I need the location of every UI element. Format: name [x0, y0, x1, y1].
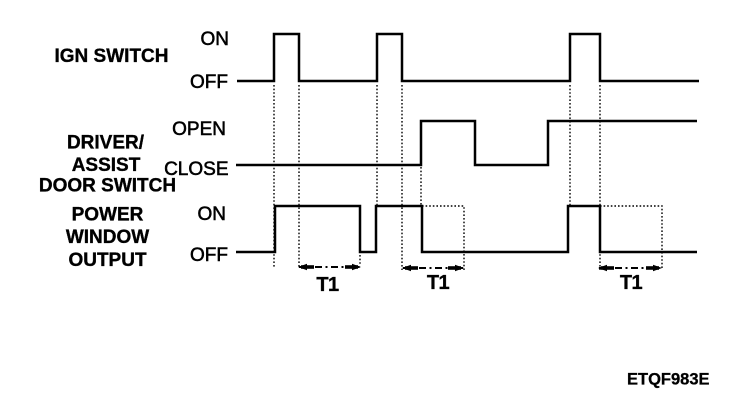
T1 arrow 2 [402, 265, 464, 271]
door switch waveform [236, 121, 697, 165]
svg-text:T1: T1 [620, 272, 643, 294]
svg-text:OFF: OFF [190, 245, 228, 266]
svg-text:OUTPUT: OUTPUT [68, 250, 147, 271]
dashed vertical at ign pulse1 fall x=299 [298, 85, 300, 268]
svg-text:POWER: POWER [72, 205, 144, 226]
dashed vertical at door open x=421 [420, 167, 422, 205]
dashed vertical at ign pulse1 rise x=274 [273, 85, 275, 268]
T1 arrow 3 [598, 265, 662, 271]
svg-text:CLOSE: CLOSE [164, 159, 228, 180]
dotted expected-output box after pulse2 [422, 206, 464, 270]
svg-text:OPEN: OPEN [172, 119, 226, 140]
svg-text:T1: T1 [427, 272, 450, 294]
dashed vertical at ign pulse2 rise x=377 [376, 85, 378, 206]
power window output waveform [236, 206, 697, 252]
svg-text:ASSIST: ASSIST [72, 155, 141, 176]
svg-text:ON: ON [201, 29, 230, 50]
svg-text:DRIVER/: DRIVER/ [67, 133, 145, 154]
svg-text:ETQF983E: ETQF983E [627, 371, 710, 389]
svg-text:IGN SWITCH: IGN SWITCH [55, 46, 169, 67]
svg-text:WINDOW: WINDOW [66, 227, 149, 248]
svg-text:DOOR SWITCH: DOOR SWITCH [39, 176, 176, 197]
dashed vertical at ign pulse2 fall x=402 [401, 85, 403, 270]
ign switch waveform [237, 34, 699, 81]
svg-text:T1: T1 [316, 274, 339, 296]
dashed vertical at ign pulse3 rise x=570 [569, 85, 571, 205]
dashed vertical at power output fall x=360 [359, 255, 361, 265]
svg-text:OFF: OFF [190, 72, 228, 93]
T1 arrow 1 [298, 264, 361, 270]
dotted expected-output box after pulse3 [600, 206, 662, 270]
svg-text:ON: ON [198, 204, 227, 225]
dashed vertical at ign pulse3 fall x=600 [599, 85, 601, 270]
